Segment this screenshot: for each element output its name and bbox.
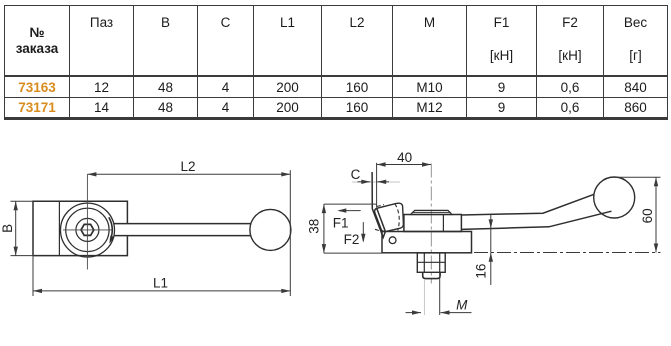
label M [456, 298, 468, 313]
right view: cam pivot light centerline [352, 181, 400, 183]
left view: vertical centerline [86, 174, 88, 269]
left view: hub inner circle [76, 218, 99, 241]
left view: horizontal centerline [63, 229, 112, 231]
svg-text:C: C [351, 167, 361, 182]
right view: ball knob [594, 177, 635, 218]
label F1 [333, 215, 349, 230]
label L1 [153, 276, 168, 291]
right view: top flange [411, 210, 453, 214]
label F2 [344, 232, 360, 247]
label L2 [180, 159, 195, 174]
label 16 [474, 264, 489, 279]
right view: cam [375, 203, 404, 231]
svg-text:L1: L1 [153, 276, 168, 291]
label 40 [397, 150, 412, 165]
svg-text:F1: F1 [333, 215, 349, 230]
right view: base plate [382, 232, 472, 253]
dimension M [406, 273, 472, 315]
svg-text:38: 38 [307, 219, 322, 234]
dimension 60 [474, 177, 661, 252]
left view: lever bar [114, 224, 251, 236]
label B [0, 224, 15, 233]
left view: hex socket [81, 224, 94, 235]
right view: clamp foot [372, 172, 385, 237]
right view: stud [417, 253, 445, 272]
svg-text:40: 40 [397, 150, 412, 165]
left view: ball knob [250, 209, 291, 250]
right view: base hole [389, 237, 396, 244]
right view: centerline of screw axis [430, 164, 432, 284]
svg-text:L2: L2 [180, 159, 195, 174]
label 38 [307, 219, 322, 234]
dimension 40 [377, 162, 431, 207]
label 60 [640, 208, 655, 223]
right view: lever arm [461, 194, 611, 229]
left view: hub outer circle [61, 203, 115, 257]
dimension 16 [489, 215, 493, 285]
svg-text:F2: F2 [344, 232, 360, 247]
svg-text:M: M [456, 298, 468, 313]
force arrow F2 [361, 222, 365, 243]
dimension L2 [87, 170, 290, 296]
left view: hub middle circle [66, 208, 109, 251]
right view: hub block [404, 215, 462, 232]
left view: body division line [58, 201, 60, 255]
dimension B [11, 201, 34, 255]
left view: rotation arrow arc [109, 217, 115, 244]
dimension L1 [33, 256, 290, 296]
dimension 38 [322, 204, 382, 253]
svg-text:B: B [0, 224, 15, 233]
right view: thread tip [423, 272, 440, 278]
dimension C [358, 180, 390, 184]
svg-text:16: 16 [474, 264, 489, 279]
label C [351, 167, 361, 182]
force arrow F1 [337, 208, 360, 212]
left view: body outline [33, 201, 127, 255]
svg-text:60: 60 [640, 208, 655, 223]
